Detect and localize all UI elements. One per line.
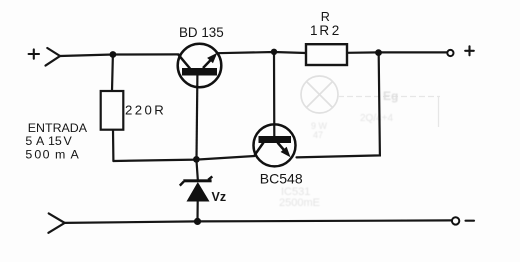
svg-text:1R2: 1R2 [310, 23, 339, 38]
svg-text:2Q/4+4: 2Q/4+4 [360, 113, 394, 124]
svg-text:Eg: Eg [383, 89, 398, 103]
svg-text:Vz: Vz [212, 190, 227, 204]
svg-text:500mA: 500mA [25, 148, 79, 162]
svg-text:220R: 220R [125, 103, 166, 118]
svg-text:5A15V: 5A15V [25, 134, 72, 148]
svg-text:ENTRADA: ENTRADA [28, 121, 88, 135]
svg-text:BD 135: BD 135 [179, 25, 224, 40]
svg-text:R: R [321, 10, 330, 24]
svg-text:BC548: BC548 [260, 170, 303, 186]
svg-text:2500mE: 2500mE [279, 197, 320, 209]
svg-text:47: 47 [313, 130, 323, 140]
